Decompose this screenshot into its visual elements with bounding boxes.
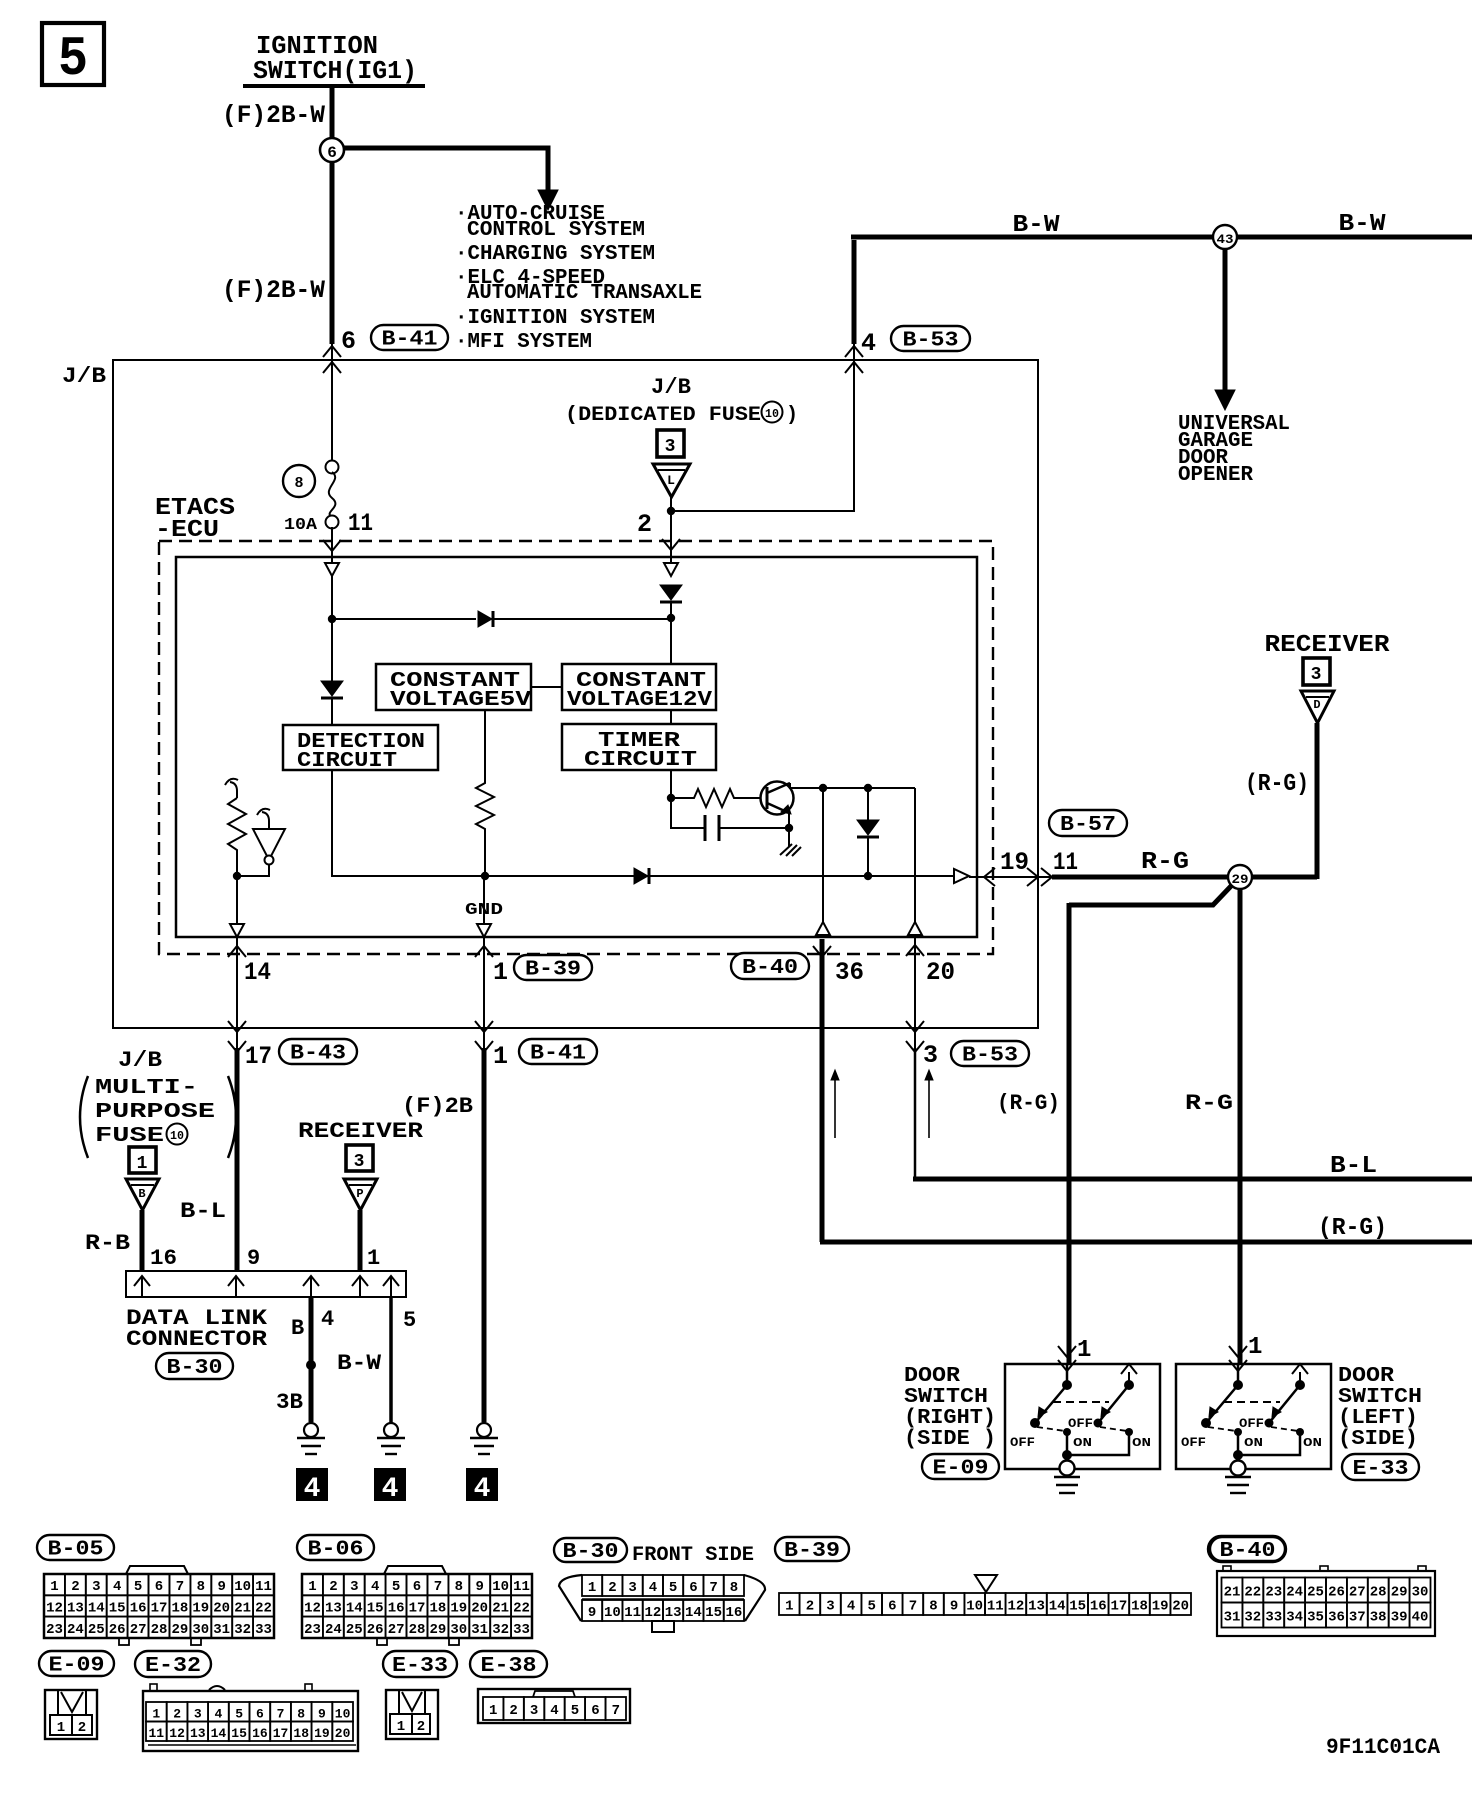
arrow into J/B at pin 4: [845, 346, 863, 357]
svg-text:10: 10: [765, 407, 779, 421]
svg-text:4: 4: [113, 1579, 121, 1595]
wire voltage12V to timer circuit: [670, 710, 672, 724]
svg-text:(RIGHT): (RIGHT): [904, 1407, 996, 1430]
junction below pin 2: [667, 614, 675, 622]
svg-text:29: 29: [429, 1622, 446, 1638]
pulldown resistor at 5V: [476, 710, 494, 876]
junction block J/B box: [113, 360, 1038, 1028]
svg-text:OFF: OFF: [1239, 1416, 1264, 1431]
door switch dashed link: [1224, 1401, 1280, 1403]
wire 17 to data link connector: [235, 1048, 240, 1271]
junction collector rail pin36: [819, 784, 827, 792]
svg-text:VOLTAGE5V: VOLTAGE5V: [390, 689, 531, 712]
arrows out of J/B pin 17: [228, 1021, 246, 1032]
svg-text:11: 11: [1053, 848, 1078, 877]
svg-text:(SIDE ): (SIDE ): [904, 1428, 996, 1451]
svg-text:3: 3: [1311, 665, 1322, 685]
receiver drop wire: [1315, 723, 1320, 879]
svg-text:(DEDICATED FUSE: (DEDICATED FUSE: [565, 404, 761, 427]
node 6: [320, 138, 344, 162]
svg-text:8: 8: [197, 1579, 205, 1595]
svg-text:6: 6: [888, 1599, 896, 1615]
branch wire from node 6 to systems list arrow: [332, 148, 558, 210]
connector label B-30: [156, 1353, 233, 1380]
svg-text:28: 28: [409, 1622, 426, 1638]
J/B multi-purpose fuse label: [80, 1048, 236, 1158]
svg-text:18: 18: [171, 1600, 188, 1616]
svg-text:CONTROL SYSTEM: CONTROL SYSTEM: [467, 219, 645, 242]
svg-text:D: D: [1313, 698, 1320, 712]
svg-text:J/B: J/B: [62, 364, 106, 389]
svg-text:R-G: R-G: [1141, 849, 1189, 876]
svg-text:11: 11: [255, 1579, 272, 1595]
wire rail corner to ETACS pin 20: [914, 788, 916, 936]
svg-text:OFF: OFF: [1181, 1435, 1206, 1450]
svg-text:1: 1: [1248, 1334, 1262, 1361]
B-L trunk wire: [913, 1177, 1472, 1182]
svg-text:3: 3: [92, 1579, 100, 1595]
connector label B-40 bottom: [1208, 1536, 1286, 1563]
detection circuit box: [283, 725, 438, 773]
connector B-30 pinout: [559, 1575, 765, 1632]
connector B-06 pinout: [302, 1566, 532, 1645]
svg-text:1: 1: [152, 1706, 160, 1721]
svg-text:9: 9: [217, 1579, 225, 1595]
wire ignition switch to node 6 (F)2B-W: [330, 88, 335, 344]
junction at base resistor: [667, 794, 675, 802]
door switch left side box: [1176, 1346, 1331, 1493]
svg-text:21: 21: [492, 1600, 509, 1616]
svg-text:2: 2: [637, 510, 652, 539]
svg-text:2: 2: [78, 1720, 86, 1736]
svg-text:16: 16: [388, 1600, 405, 1616]
svg-text:1: 1: [489, 1703, 497, 1719]
connector label B-05: [37, 1535, 114, 1562]
svg-text:): ): [786, 404, 798, 427]
connector label B-41 top: [371, 325, 448, 352]
fusible link L triangle: [653, 464, 690, 497]
svg-text:(SIDE): (SIDE): [1338, 1428, 1418, 1451]
door switch right side box: [1005, 1346, 1160, 1493]
svg-text:2: 2: [173, 1706, 181, 1721]
receiver bottom connector 3 box: [346, 1145, 373, 1172]
svg-text:14: 14: [685, 1605, 702, 1621]
svg-text:11: 11: [148, 1726, 164, 1741]
svg-text:5: 5: [392, 1579, 400, 1595]
svg-text:10: 10: [966, 1599, 983, 1615]
svg-text:CIRCUIT: CIRCUIT: [584, 749, 697, 772]
svg-text:DOOR: DOOR: [1338, 1365, 1394, 1388]
svg-text:31: 31: [471, 1622, 488, 1638]
svg-text:29: 29: [1232, 872, 1249, 887]
svg-text:22: 22: [513, 1600, 530, 1616]
svg-text:·CHARGING SYSTEM: ·CHARGING SYSTEM: [455, 243, 655, 266]
wire pin 36 down: [820, 939, 825, 1242]
receiver connector 3 box: [1303, 658, 1330, 685]
svg-text:4: 4: [321, 1307, 334, 1332]
svg-text:6: 6: [256, 1706, 264, 1721]
svg-text:RECEIVER: RECEIVER: [1265, 632, 1391, 659]
svg-text:2: 2: [417, 1719, 425, 1735]
svg-text:4: 4: [304, 1474, 321, 1505]
door switch output to ground: [1237, 1432, 1240, 1457]
svg-text:3: 3: [923, 1041, 938, 1070]
light sensor resistor: [225, 779, 246, 876]
junction below pin 11: [328, 615, 336, 623]
arrow out of ETACS pin 14: [228, 946, 246, 957]
svg-text:30: 30: [1412, 1585, 1429, 1601]
svg-text:19: 19: [1000, 848, 1029, 877]
svg-text:14: 14: [244, 958, 271, 987]
svg-text:(F)2B: (F)2B: [402, 1094, 473, 1119]
ETACS pin 36 triangle: [816, 922, 830, 935]
svg-text:15: 15: [1069, 1599, 1086, 1615]
door switch contact common: [1066, 1364, 1069, 1385]
connector label B-53 top: [891, 326, 970, 353]
svg-text:PURPOSE: PURPOSE: [95, 1101, 215, 1124]
svg-text:3: 3: [194, 1706, 202, 1721]
svg-text:31: 31: [1224, 1610, 1241, 1626]
svg-text:5: 5: [571, 1703, 579, 1719]
svg-text:14: 14: [211, 1726, 227, 1741]
svg-text:30: 30: [192, 1622, 209, 1638]
svg-text:4: 4: [649, 1580, 657, 1596]
svg-text:4: 4: [550, 1703, 558, 1719]
diode below pin 2: [660, 585, 682, 600]
internal rail pin11 to pin2 with diode: [332, 618, 476, 620]
svg-text:1: 1: [785, 1599, 793, 1615]
svg-text:1: 1: [588, 1580, 596, 1596]
diode D3 to ground bus: [867, 788, 869, 822]
svg-text:7: 7: [277, 1706, 285, 1721]
svg-text:FRONT SIDE: FRONT SIDE: [632, 1544, 754, 1567]
fuse 8 element 10A: [326, 461, 339, 529]
svg-text:8: 8: [455, 1579, 463, 1595]
svg-text:14: 14: [346, 1600, 363, 1616]
ground G2: [384, 1423, 398, 1437]
svg-text:17: 17: [245, 1042, 272, 1071]
svg-text:9: 9: [588, 1605, 596, 1621]
svg-text:8: 8: [929, 1599, 937, 1615]
transistor Q1: [761, 782, 794, 815]
R-G trunk to receiver: [1052, 875, 1317, 880]
B-W trunk wire top right: [851, 235, 1472, 240]
svg-text:18: 18: [1131, 1599, 1148, 1615]
arrow at ETACS pin 20 crossing: [906, 945, 924, 956]
svg-text:17: 17: [1110, 1599, 1127, 1615]
door switch movable contact 1: [1035, 1385, 1067, 1423]
door switch movable contact 1: [1206, 1385, 1238, 1423]
svg-text:19: 19: [314, 1726, 330, 1741]
svg-text:1: 1: [57, 1720, 65, 1736]
svg-text:23: 23: [1265, 1585, 1282, 1601]
connector B-40 pinout: [1217, 1566, 1435, 1636]
svg-text:B-05: B-05: [48, 1539, 104, 1562]
svg-text:16: 16: [725, 1605, 742, 1621]
page number box 5: [42, 23, 104, 91]
door switch second pole arrow: [1121, 1364, 1137, 1374]
svg-text:26: 26: [1328, 1585, 1345, 1601]
J/B dedicated fuse label: [565, 375, 798, 427]
door switch input arrows: [1058, 1346, 1076, 1357]
svg-text:(R-G): (R-G): [1245, 771, 1309, 798]
pin 4 wire to ground: [309, 1297, 314, 1422]
svg-text:32: 32: [234, 1622, 251, 1638]
ETACS pin 14 triangle: [230, 924, 244, 937]
junction at pin 2: [667, 507, 675, 515]
link between voltage regulators: [531, 686, 562, 688]
systems list fed by IG1: [455, 203, 702, 354]
arrow at J/B boundary pin 11: [1027, 868, 1038, 886]
data link connector box: [126, 1271, 406, 1297]
svg-text:18: 18: [293, 1726, 309, 1741]
wire fuse L to node 2: [670, 497, 672, 513]
arrow into ETACS at pin 11: [323, 540, 341, 551]
svg-text:11: 11: [513, 1579, 530, 1595]
ETACS GND pin triangle: [477, 924, 491, 937]
svg-text:27: 27: [130, 1622, 147, 1638]
wire down to door switch right: [1067, 903, 1072, 1364]
junction collector rail diode: [864, 784, 872, 792]
connector E-32 pinout: [143, 1684, 358, 1751]
ground bus from detection circuit: [332, 770, 954, 876]
connector label B-43: [279, 1039, 357, 1066]
svg-text:16: 16: [1090, 1599, 1107, 1615]
svg-text:2: 2: [806, 1599, 814, 1615]
svg-text:4: 4: [474, 1474, 491, 1505]
door switch second pole arrow: [1292, 1364, 1308, 1374]
svg-text:2: 2: [329, 1579, 337, 1595]
svg-text:26: 26: [367, 1622, 384, 1638]
svg-text:15: 15: [705, 1605, 722, 1621]
connector B-05 pinout: [44, 1566, 274, 1645]
svg-text:B-53: B-53: [903, 330, 959, 353]
svg-text:14: 14: [88, 1600, 105, 1616]
wire pin 3 down to B-L corner: [914, 1048, 917, 1179]
ETACS pin 2 input triangle: [664, 563, 678, 576]
data link connector label: [126, 1306, 268, 1352]
svg-text:6: 6: [591, 1703, 599, 1719]
svg-text:19: 19: [192, 1600, 209, 1616]
svg-text:B-41: B-41: [382, 329, 438, 352]
svg-text:R-B: R-B: [85, 1231, 130, 1256]
svg-text:20: 20: [213, 1600, 230, 1616]
connector E-33 pinout: [386, 1690, 438, 1739]
junction bus resistor 5V: [481, 872, 489, 880]
ground ref box 4 first: [296, 1468, 328, 1505]
svg-text:B-06: B-06: [308, 1539, 364, 1562]
pin 5 wire to ground: [389, 1297, 393, 1422]
svg-text:4: 4: [214, 1706, 222, 1721]
connector label E-09 at switch: [922, 1454, 999, 1481]
svg-text:10: 10: [170, 1129, 184, 1143]
node 43: [1213, 225, 1237, 410]
svg-text:·IGNITION SYSTEM: ·IGNITION SYSTEM: [455, 307, 655, 330]
svg-text:8: 8: [297, 1706, 305, 1721]
svg-text:B-53: B-53: [962, 1045, 1018, 1068]
svg-text:E-33: E-33: [1353, 1458, 1409, 1481]
connector E-38 pinout: [478, 1689, 630, 1723]
svg-text:J/B: J/B: [651, 375, 691, 400]
svg-text:R-G: R-G: [1185, 1091, 1233, 1116]
svg-text:37: 37: [1349, 1610, 1366, 1626]
svg-text:11: 11: [624, 1605, 641, 1621]
connector label B-41 bottom: [519, 1039, 597, 1066]
svg-text:40: 40: [1412, 1610, 1429, 1626]
connector label B-06: [297, 1535, 374, 1562]
arrows out of J/B pin 1 B-41: [475, 1021, 493, 1032]
svg-text:34: 34: [1286, 1610, 1303, 1626]
svg-text:7: 7: [909, 1599, 917, 1615]
ETACS pin 20 triangle: [908, 922, 922, 935]
base resistor R1: [671, 789, 760, 807]
svg-text:9F11C01CA: 9F11C01CA: [1326, 1735, 1441, 1760]
wire pin11 junction down to diode: [331, 621, 333, 681]
svg-text:B-57: B-57: [1060, 814, 1116, 837]
svg-text:9: 9: [475, 1579, 483, 1595]
svg-text:1: 1: [50, 1579, 58, 1595]
output arrow at pin 19: [954, 869, 969, 883]
svg-text:B: B: [291, 1316, 304, 1341]
svg-text:E-09: E-09: [49, 1655, 105, 1678]
svg-text:33: 33: [255, 1622, 272, 1638]
connector label E-38: [470, 1651, 547, 1678]
svg-text:38: 38: [1370, 1610, 1387, 1626]
ETACS pin 11 input triangle: [325, 563, 339, 576]
connector E-09 pinout: [45, 1690, 97, 1739]
svg-text:3: 3: [826, 1599, 834, 1615]
junction sensor to pin 14: [233, 872, 241, 880]
svg-text:B-L: B-L: [180, 1199, 226, 1224]
door switch ground: [1231, 1461, 1246, 1476]
svg-text:7: 7: [434, 1579, 442, 1595]
svg-text:12: 12: [46, 1600, 63, 1616]
door switch throw dashes: [1208, 1427, 1236, 1431]
svg-text:4: 4: [371, 1579, 379, 1595]
svg-text:B-30: B-30: [167, 1357, 223, 1380]
ETACS-ECU dashed boundary: [159, 541, 993, 954]
connector label E-33 at switch: [1342, 1454, 1419, 1481]
svg-text:P: P: [356, 1187, 363, 1201]
wire transistor collector to output rail: [790, 783, 915, 788]
svg-text:13: 13: [190, 1726, 206, 1741]
svg-text:(R-G): (R-G): [997, 1091, 1060, 1116]
svg-text:22: 22: [255, 1600, 272, 1616]
svg-text:5: 5: [134, 1579, 142, 1595]
svg-text:B-30: B-30: [563, 1541, 619, 1564]
svg-text:27: 27: [388, 1622, 405, 1638]
node 29 branch to right door switch: [1069, 884, 1233, 905]
svg-text:ON: ON: [1132, 1436, 1151, 1450]
door switch throw dashes: [1037, 1427, 1065, 1431]
svg-text:5: 5: [669, 1580, 677, 1596]
connector label E-33: [383, 1651, 457, 1678]
svg-text:6: 6: [413, 1579, 421, 1595]
svg-text:15: 15: [367, 1600, 384, 1616]
svg-text:B-41: B-41: [530, 1043, 586, 1066]
svg-text:DOOR: DOOR: [904, 1365, 960, 1388]
svg-text:ON: ON: [1244, 1436, 1263, 1450]
door switch movable contact 2: [1098, 1385, 1129, 1423]
svg-text:26: 26: [109, 1622, 126, 1638]
svg-text:23: 23: [304, 1622, 321, 1638]
connector label B-39 bottom: [775, 1537, 849, 1563]
svg-text:L: L: [667, 473, 675, 488]
svg-text:11: 11: [348, 509, 373, 538]
svg-text:29: 29: [171, 1622, 188, 1638]
svg-text:6: 6: [341, 327, 356, 356]
svg-text:AUTOMATIC TRANSAXLE: AUTOMATIC TRANSAXLE: [467, 282, 702, 305]
chassis ground at emitter: [780, 828, 801, 856]
wire pin 2 into ETACS: [670, 513, 672, 563]
svg-text:SWITCH(IG1): SWITCH(IG1): [253, 56, 417, 86]
wire from dedicated fuse junction to pin 4 exit: [673, 344, 854, 511]
connector B-39 pinout: [779, 1575, 1191, 1615]
wire fuse 8 to ETACS pin 11: [331, 527, 333, 563]
door switch dashed link: [1053, 1401, 1109, 1403]
svg-text:7: 7: [176, 1579, 184, 1595]
svg-text:SWITCH: SWITCH: [1338, 1386, 1422, 1409]
svg-text:5: 5: [403, 1308, 416, 1333]
svg-text:2: 2: [608, 1580, 616, 1596]
svg-text:25: 25: [88, 1622, 105, 1638]
ground ref box 4 third: [466, 1468, 498, 1505]
svg-text:E-33: E-33: [392, 1655, 448, 1678]
svg-text:·MFI SYSTEM: ·MFI SYSTEM: [455, 331, 592, 354]
diode on internal rail: [478, 611, 492, 627]
svg-text:B-40: B-40: [742, 957, 798, 980]
svg-text:3: 3: [354, 1152, 365, 1172]
svg-text:J/B: J/B: [118, 1048, 162, 1073]
connector label B-39: [514, 955, 592, 982]
svg-text:20: 20: [471, 1600, 488, 1616]
svg-text:15: 15: [109, 1600, 126, 1616]
svg-text:OFF: OFF: [1010, 1435, 1035, 1450]
svg-text:(F)2B-W: (F)2B-W: [222, 101, 325, 130]
diode toward detection circuit: [321, 681, 343, 696]
wire sensor to ETACS pin 14: [236, 876, 238, 937]
node 29: [1228, 865, 1252, 889]
svg-text:29: 29: [1391, 1585, 1408, 1601]
wire ETACS pin 19 to J/B pin 11: [969, 876, 1052, 878]
svg-text:24: 24: [67, 1622, 84, 1638]
wire fuse B to data link pin 16: [140, 1210, 145, 1271]
svg-text:1: 1: [308, 1579, 316, 1595]
svg-text:21: 21: [1224, 1585, 1241, 1601]
svg-text:E-32: E-32: [145, 1655, 201, 1678]
fusible link B triangle: [126, 1179, 159, 1210]
svg-text:CIRCUIT: CIRCUIT: [297, 750, 397, 773]
svg-text:13: 13: [67, 1600, 84, 1616]
svg-text:B: B: [138, 1187, 145, 1201]
svg-text:(R-G): (R-G): [1318, 1215, 1387, 1242]
svg-text:9: 9: [318, 1706, 326, 1721]
arrow out of ETACS pin 36: [813, 946, 831, 957]
svg-text:1: 1: [367, 1246, 380, 1271]
svg-text:1: 1: [137, 1154, 148, 1174]
svg-text:13: 13: [1028, 1599, 1045, 1615]
svg-text:B-W: B-W: [1013, 212, 1061, 239]
svg-text:15: 15: [231, 1726, 247, 1741]
flow arrow on pin3 wire: [925, 1070, 933, 1138]
connector label E-32: [135, 1651, 211, 1678]
svg-text:4: 4: [847, 1599, 855, 1615]
door switch output to ground: [1066, 1432, 1069, 1457]
svg-text:33: 33: [1265, 1610, 1282, 1626]
svg-text:B-40: B-40: [1220, 1540, 1276, 1563]
svg-text:12: 12: [169, 1726, 185, 1741]
svg-text:OPENER: OPENER: [1178, 464, 1253, 487]
